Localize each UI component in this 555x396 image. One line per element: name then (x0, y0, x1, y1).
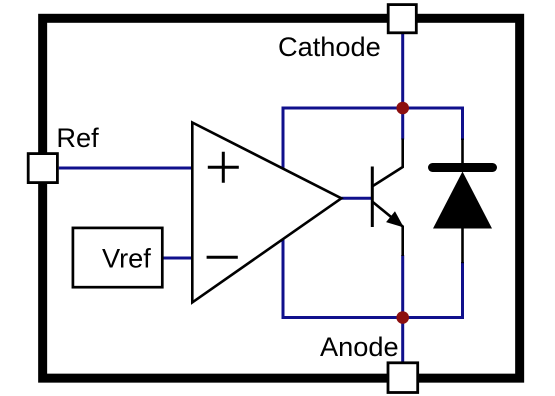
wire Ref input (59, 167, 193, 170)
wire bottom rail (283, 316, 463, 319)
label Ref (56, 122, 99, 153)
svg-text:Vref: Vref (102, 242, 151, 273)
label Anode (320, 331, 399, 362)
svg-text:Ref: Ref (56, 122, 99, 153)
svg-text:Anode: Anode (320, 331, 399, 362)
svg-text:Cathode: Cathode (278, 31, 381, 62)
label Cathode (278, 31, 381, 62)
wire anode stub (401, 318, 404, 362)
wire top rail (283, 107, 463, 110)
wire left loop vertical (282, 107, 285, 320)
terminal Anode pad (388, 363, 418, 393)
op-amp U1 (192, 123, 341, 303)
wire right loop lower (461, 262, 464, 319)
junction dot cathode node (396, 102, 409, 115)
border frame (43, 18, 520, 378)
wire cathode stub (401, 34, 404, 109)
terminal Cathode pad (388, 5, 416, 33)
wire op-amp output to base (342, 197, 373, 200)
wire right loop upper (461, 107, 464, 141)
diode D1 (433, 139, 493, 264)
junction dot anode node (396, 311, 409, 324)
Vref box (73, 228, 162, 287)
transistor Q1 (372, 139, 402, 257)
terminal Ref pad (28, 154, 57, 183)
wire collector stub (401, 107, 404, 140)
wire Vref to op-amp (164, 257, 194, 260)
wire emitter stub (401, 255, 404, 319)
